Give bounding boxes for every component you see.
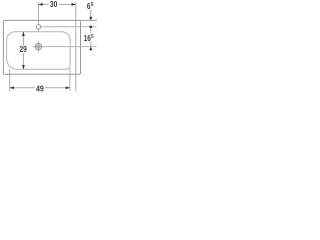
dim 6.5 vertical line: [90, 10, 92, 21]
top edge extension line to right: [81, 19, 98, 21]
dim 16.5 up arrow: [89, 47, 92, 51]
dim 30 right arrow: [72, 3, 76, 6]
svg-text:5: 5: [91, 34, 94, 40]
dim 29 label: [19, 46, 28, 53]
drain horizontal centerline: [33, 46, 97, 48]
dim 16.5 label: [83, 33, 95, 41]
background: [0, 0, 98, 98]
dim 49 label: [35, 85, 45, 92]
dim 49 line: [10, 87, 70, 89]
dim 29 down arrow: [22, 65, 25, 69]
dim 30 line: [39, 3, 76, 5]
tap hole: [36, 25, 40, 29]
drain inner circle: [37, 45, 40, 48]
dim 30 left arrow: [39, 3, 43, 6]
dim 49 left arrow: [10, 86, 14, 89]
svg-text:29: 29: [20, 45, 28, 54]
svg-text:5: 5: [91, 2, 94, 8]
basin bowl outline: [7, 32, 71, 70]
washbasin outer rim (top view): [3, 20, 80, 74]
svg-text:49: 49: [36, 85, 44, 94]
dim 49 right extension line (basin right edge continued): [69, 68, 71, 92]
svg-text:30: 30: [50, 0, 58, 9]
dim 49 right arrow: [66, 86, 70, 89]
dim chain dot: [89, 25, 92, 28]
tap hole horizontal centerline: [41, 26, 97, 28]
dim 29 up arrow: [22, 32, 25, 36]
dim 29 line: [22, 32, 24, 70]
tap hole vertical centerline / dim-30 left extension: [38, 2, 40, 32]
dim 49 left extension line: [9, 69, 11, 91]
drain outer circle: [35, 43, 42, 50]
svg-text:16: 16: [84, 34, 92, 43]
dim 6.5 down arrow: [89, 17, 92, 21]
dim-30/dim-49 shared right extension line: [75, 2, 77, 91]
dim 30 label: [49, 1, 59, 8]
dim 16.5 vertical line: [90, 27, 92, 50]
drain vertical centerline: [37, 41, 39, 51]
